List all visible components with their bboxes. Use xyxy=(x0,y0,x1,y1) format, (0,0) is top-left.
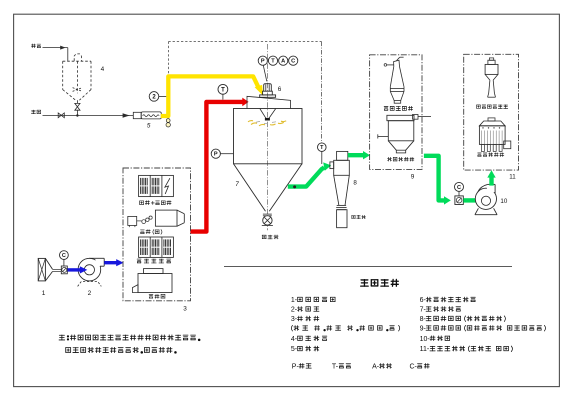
cyclone S8 cone xyxy=(334,175,339,205)
label 扩散分离器 xyxy=(384,106,413,110)
label 料液 (feed liquid) xyxy=(31,44,40,48)
label 蒸汽＋电换热 xyxy=(140,201,171,205)
svg-text:T-: T- xyxy=(332,363,339,370)
svg-text:1-: 1- xyxy=(291,297,298,304)
pipe: green cyclone->box9 xyxy=(348,153,364,157)
instrument bubble 2 (pump control) xyxy=(159,95,166,97)
note line 1 xyxy=(59,335,200,341)
fan F10 base xyxy=(475,208,479,214)
label 燃油（气） xyxy=(140,230,161,235)
label 出料口 tower outlet xyxy=(262,235,278,239)
svg-text:5-: 5- xyxy=(291,346,298,353)
pipe: red hot air heater->tower xyxy=(190,102,243,232)
label 布袋除尘器 xyxy=(387,157,413,161)
label 燃煤炉 xyxy=(149,294,165,298)
diffusion separator (扩散分离器) xyxy=(394,60,400,66)
thermal oil heat exchanger xyxy=(139,237,174,257)
separator line xyxy=(224,266,512,268)
tower internal funnel + nozzle xyxy=(260,109,266,119)
arrow into pump P5 xyxy=(123,113,130,117)
fan F10 volute xyxy=(475,188,496,209)
legend left column xyxy=(291,297,335,304)
tank T4 agitator shaft xyxy=(76,61,78,93)
wire: feed liquid line into tank 4 xyxy=(43,47,68,49)
coal furnace xyxy=(138,274,172,293)
pipe: blue fan2->heater box xyxy=(104,261,117,264)
tower T7 roof xyxy=(247,96,291,108)
label 清水 (clean water) xyxy=(31,110,40,114)
instrument bubble T on red pipe xyxy=(222,94,224,99)
tower T7 cone xyxy=(234,164,266,211)
spray scrubber (喷淋除尘器) xyxy=(488,118,495,121)
cyclone S8 flange xyxy=(337,204,346,206)
note line 2 xyxy=(66,347,177,353)
pipe: green tower->cyclone xyxy=(288,167,324,186)
spray pattern dashes xyxy=(248,121,286,126)
bag filter (布袋除尘器) lid xyxy=(387,115,414,120)
atomizer U6 motor bolt xyxy=(264,84,272,92)
svg-text:3: 3 xyxy=(183,306,187,313)
svg-text:C: C xyxy=(457,185,461,191)
svg-text:8-: 8- xyxy=(420,316,427,323)
label 导热油换热 xyxy=(137,259,171,263)
wire: clean water line to pump xyxy=(43,115,134,117)
tower T7 body xyxy=(234,109,303,164)
instrument bubble T at cyclone inlet xyxy=(321,152,323,164)
dashed enclosure box 9 xyxy=(370,55,422,170)
svg-text:7: 7 xyxy=(235,181,239,188)
svg-text:11: 11 xyxy=(509,173,516,180)
fan F2 volute xyxy=(78,258,101,281)
svg-text:2: 2 xyxy=(88,290,92,297)
check valves on pump outlet xyxy=(166,119,170,123)
venturi scrubber (文丘里除尘器) xyxy=(489,58,493,60)
legend title 代号说明 xyxy=(361,279,399,286)
wire: dashed control line (vertical at yellow pipe) xyxy=(167,42,169,74)
svg-text:P-: P- xyxy=(292,363,300,370)
svg-text:4: 4 xyxy=(101,66,105,73)
svg-text:4-: 4- xyxy=(291,336,298,343)
inlet damper valve xyxy=(61,266,67,274)
cyclone S8 body xyxy=(334,160,350,175)
pipe: green box9->valve->fan10 xyxy=(424,156,445,201)
dashed enclosure box 3 (heater options) xyxy=(123,168,191,301)
arrow red into tower xyxy=(242,98,248,107)
cyclone S8 receiver pot xyxy=(337,210,347,228)
svg-text:9: 9 xyxy=(411,174,415,181)
instrument bubbles P T A C on tower top xyxy=(263,65,267,81)
tower outlet flange xyxy=(263,213,272,215)
tank T4 dashed vessel xyxy=(74,54,81,61)
node: pipe joint on cone xyxy=(293,185,296,188)
legend symbols row P T A C xyxy=(292,363,311,370)
bag filter right nub + vent line xyxy=(413,115,419,120)
dashed enclosure box 11 xyxy=(464,54,519,170)
wire: dash-dot control drop to T bubble at cyclone xyxy=(321,42,323,143)
spray scrubber outlet box xyxy=(504,141,511,149)
label 出料口 cyclone outlet xyxy=(352,215,366,218)
pump P5 (screw feed pump) xyxy=(133,112,141,118)
bag filter body xyxy=(388,121,414,141)
atomizer U6 base xyxy=(260,95,276,97)
instrument bubble P tower wall xyxy=(220,153,233,155)
fan F2 inner circle xyxy=(84,265,94,275)
svg-text:C: C xyxy=(62,253,66,259)
instrument bubble C at inlet valve xyxy=(63,260,65,267)
svg-text:7-: 7- xyxy=(420,307,427,314)
svg-text:T: T xyxy=(271,59,275,65)
cyclone S8 inlet stub xyxy=(330,162,334,169)
lightning bolt (electric) xyxy=(165,178,170,194)
svg-text:6: 6 xyxy=(278,86,282,93)
wire: double line filter->valve xyxy=(53,268,62,270)
svg-text:C-: C- xyxy=(410,363,418,370)
legend right column xyxy=(420,297,476,304)
tower centerline xyxy=(266,44,268,230)
svg-text:P: P xyxy=(214,152,218,158)
fan F2 dashed base xyxy=(78,282,102,287)
svg-text:8: 8 xyxy=(353,179,357,186)
pipe: green fan10->box11 xyxy=(489,177,493,186)
node: junction tank line / water line xyxy=(76,114,78,116)
valve under tank 4 xyxy=(76,100,78,103)
air filter F1 xyxy=(38,258,45,281)
pipe: green valve->fan10 xyxy=(463,198,476,202)
bag filter cone + outlet xyxy=(388,141,396,150)
atomizer U6 flange xyxy=(263,91,273,95)
svg-text:11-: 11- xyxy=(420,346,430,353)
valve on water line xyxy=(58,113,64,118)
svg-text:2-: 2- xyxy=(291,307,298,314)
damper valve with control xyxy=(455,196,463,205)
svg-text:9-: 9- xyxy=(420,326,427,333)
fuel oil/gas burner xyxy=(128,216,137,225)
svg-text:3-: 3- xyxy=(291,316,298,323)
svg-text:A-: A- xyxy=(372,363,380,370)
svg-text:1: 1 xyxy=(42,290,46,297)
svg-text:10: 10 xyxy=(500,198,507,205)
svg-text:10-: 10- xyxy=(420,336,431,343)
cyclone S8 top outlet box xyxy=(337,151,348,160)
svg-text:5: 5 xyxy=(147,122,151,129)
svg-text:6-: 6- xyxy=(420,297,427,304)
svg-text:A: A xyxy=(281,59,285,65)
wire: dashed control line (horizontal top) xyxy=(168,41,321,43)
svg-text:C: C xyxy=(291,59,295,65)
instrument bubble C at valve xyxy=(458,191,460,196)
steam+electric heat exchanger xyxy=(139,175,174,196)
fan F10 inner circle xyxy=(481,196,490,205)
bag filter left stub xyxy=(378,135,389,137)
tower outlet rotary valve xyxy=(263,216,272,225)
svg-text:P: P xyxy=(261,59,265,65)
label 喷淋除尘器 xyxy=(478,153,504,157)
arrow yellow into atomizer xyxy=(255,85,264,96)
pipe: yellow feed line pump->atomizer xyxy=(161,76,259,116)
pipe: blue valve->fan2 xyxy=(68,268,81,271)
svg-text:T: T xyxy=(221,87,225,93)
label 文丘里除尘器 xyxy=(477,105,508,109)
